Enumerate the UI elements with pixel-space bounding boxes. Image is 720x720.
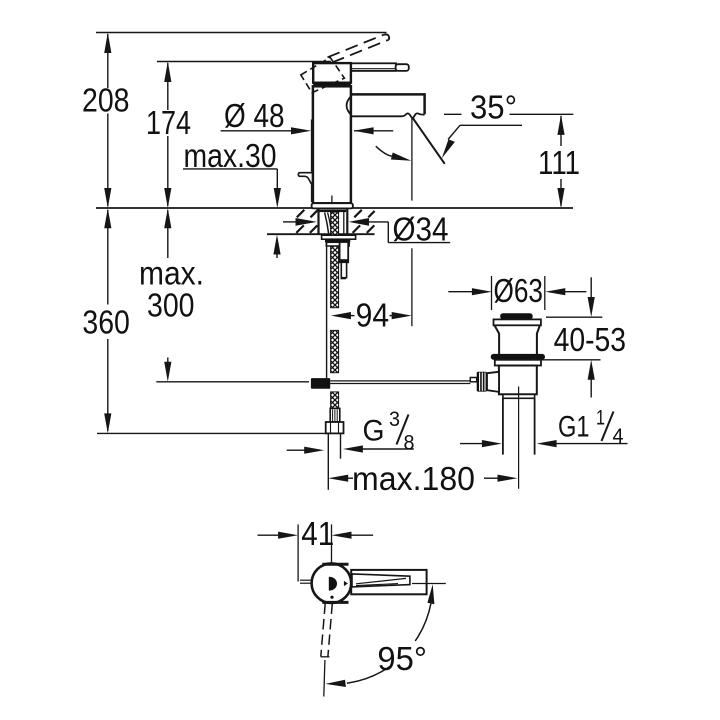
top view: small dot [330, 596, 333, 599]
drain centerline [518, 387, 520, 489]
svg-text:G: G [363, 415, 385, 448]
top view: 41 dimension [258, 515, 374, 582]
drain knob cone [487, 372, 499, 392]
svg-text:3: 3 [389, 408, 400, 431]
svg-text:95°: 95° [377, 640, 427, 677]
drain tailpipe [502, 398, 504, 454]
label max.180 with arrows [328, 460, 517, 497]
dimension 208 line [104, 33, 111, 209]
label O63 with arrows [448, 272, 586, 310]
svg-text:Ø63: Ø63 [494, 272, 544, 309]
faucet cap (cartridge cover) [313, 63, 351, 83]
top view: handle rectangle [351, 570, 426, 594]
faucet lever bar [351, 63, 396, 71]
extension line 174 upper datum [157, 61, 331, 63]
svg-text:max.180: max.180 [352, 460, 475, 497]
deck underside line [267, 233, 375, 235]
hose S-curves in shank [325, 213, 329, 234]
body companion thin line [310, 120, 312, 172]
spout root arc [347, 96, 352, 116]
dimension 94 [331, 248, 412, 333]
svg-text:94: 94 [356, 297, 390, 334]
top view: pivot triangle [344, 581, 348, 586]
top view: spout stub left (double line) [300, 579, 312, 581]
faucet lever end cap [396, 64, 409, 71]
deck hatching left band [296, 210, 318, 233]
svg-text:Ø 48: Ø 48 [224, 97, 285, 134]
jet direction line 35deg [412, 118, 444, 164]
drain push cap [500, 313, 533, 319]
extension line 360 bottom datum [97, 432, 326, 434]
label max.30 with elbow arrow to deck [183, 137, 281, 258]
top view: collar chord bottom [322, 601, 348, 604]
drain coupling ring [503, 394, 535, 398]
dimension 40-53 [537, 277, 626, 397]
drain white ring [495, 360, 541, 366]
faucet body [313, 86, 351, 203]
label G1 1/4 with arrows [460, 407, 628, 449]
faucet: dashed tilted cap outline [301, 57, 345, 92]
svg-text:41: 41 [301, 515, 334, 552]
hose end nut G3/8 [326, 422, 344, 433]
label G 3/8 with arrows [287, 408, 415, 455]
95 degree arc with arrows [325, 584, 434, 687]
svg-text:35°: 35° [470, 89, 517, 126]
mounting nut [325, 239, 350, 242]
svg-text:174: 174 [146, 104, 191, 141]
swivel reference line below [324, 660, 325, 697]
svg-text:111: 111 [538, 144, 580, 181]
dimension 360 line [104, 208, 111, 433]
dimension max.300 line [164, 208, 171, 381]
svg-text:360: 360 [82, 304, 129, 341]
svg-text:G1: G1 [558, 411, 590, 444]
extension line top (208 upper datum) [96, 32, 387, 34]
label O34 with bracket leader and arrows [283, 210, 450, 247]
spout tip vertical reference line [411, 118, 413, 201]
faucet: dashed raised lever [328, 35, 389, 63]
hose retaining hook on body [298, 173, 313, 186]
flow direction arc arrow [376, 146, 411, 161]
shank hole right edge [346, 209, 348, 234]
shank top ring [320, 210, 347, 213]
hose crimp sleeve [330, 408, 340, 422]
faucet cap black band [313, 82, 351, 86]
mounting washer [322, 235, 356, 239]
drain rod stem [470, 378, 476, 382]
shank inner line [343, 212, 345, 234]
dimension 111 line [557, 115, 564, 208]
supply pipe below nut [327, 433, 329, 489]
pop-up rod clamp block [311, 378, 330, 389]
extension line max.300 bottom datum [156, 381, 309, 383]
label Ø 48 with arrows [221, 97, 394, 135]
drain flange rim [494, 319, 541, 325]
svg-text:40-53: 40-53 [554, 321, 626, 358]
top view: handle axis line [412, 583, 446, 585]
pop-up rod guide piece upper [340, 241, 349, 263]
pop-up vertical rod [326, 239, 328, 378]
svg-text:Ø34: Ø34 [393, 210, 449, 247]
deck/countertop surface line [96, 207, 573, 209]
top view: body circle [312, 563, 352, 603]
horizontal pull rod to drain [330, 380, 470, 382]
deck hatching right band [353, 210, 375, 233]
spout underside with aerator notch [351, 113, 425, 118]
drain knurled knob [477, 372, 487, 392]
drain valve body [499, 366, 537, 395]
top view: collar chord top [322, 563, 348, 566]
spout top and right edge [351, 94, 425, 114]
top view: cartridge D mark [329, 577, 337, 591]
dimension 174 line [164, 62, 171, 209]
svg-text:1: 1 [596, 407, 605, 430]
faucet centerline [331, 196, 333, 209]
base plate escutcheon [312, 203, 353, 208]
top view: inner lever shape [352, 574, 410, 587]
top view: dashed swivel spout lines [321, 604, 333, 657]
pop-up rod guide piece lower [341, 262, 347, 279]
svg-text:8: 8 [404, 432, 415, 455]
svg-text:208: 208 [82, 82, 130, 119]
drain flange cone sides [495, 325, 500, 354]
label 35 degrees with leader [442, 89, 574, 159]
svg-text:4: 4 [613, 425, 624, 448]
braided hose segments [331, 212, 339, 408]
drain rubber gasket [491, 354, 545, 360]
shank hole left edge [317, 209, 319, 234]
svg-text:300: 300 [147, 286, 195, 323]
